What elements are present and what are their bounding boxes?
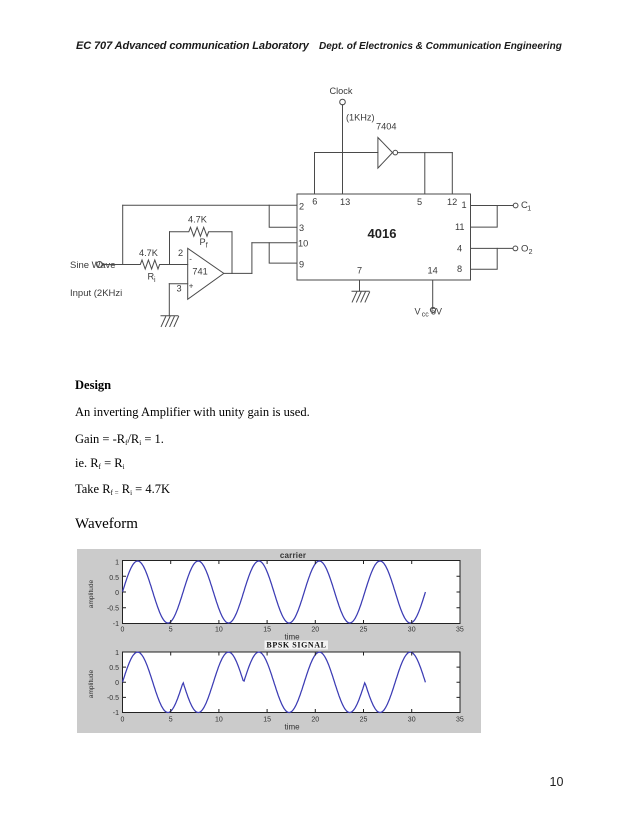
svg-text:1: 1 <box>115 560 119 567</box>
plot 2 curve: PATH2 <box>123 652 426 712</box>
svg-text:carrier: carrier <box>280 551 306 560</box>
svg-text:0: 0 <box>121 627 125 634</box>
header left <box>76 40 309 52</box>
plot 1 frame <box>123 561 461 624</box>
svg-text:-1: -1 <box>113 710 119 717</box>
svg-text:amplitude: amplitude <box>88 670 95 699</box>
wire pin 4 to O2 <box>471 247 514 249</box>
svg-text:0: 0 <box>115 590 119 597</box>
svg-text:time: time <box>284 723 300 732</box>
wire pin 2 <box>123 204 297 206</box>
plot 2 axis ticks <box>123 652 461 713</box>
resistor Pf 4.7K <box>170 227 233 236</box>
label Pf <box>200 237 208 250</box>
svg-text:35: 35 <box>456 717 464 724</box>
label Vcc 5V <box>415 307 443 319</box>
ground IC <box>352 291 370 302</box>
wire pin 8 step <box>471 248 498 269</box>
svg-text:35: 35 <box>456 627 464 634</box>
plot 2 y ticks <box>107 650 119 717</box>
wire to pin 12 <box>451 153 453 194</box>
wire clock to pin 13 <box>342 105 344 194</box>
wire pin 9 step <box>269 243 297 263</box>
wire pin 3 step <box>269 205 297 227</box>
svg-text:5: 5 <box>169 627 173 634</box>
wire input riser <box>122 205 124 264</box>
svg-text:10: 10 <box>215 627 223 634</box>
svg-text:30: 30 <box>408 717 416 724</box>
wire inverter output <box>398 152 453 154</box>
wire op-amp output <box>224 272 252 274</box>
terminal input <box>97 262 103 268</box>
waveform panel <box>77 549 481 733</box>
plot 2 title BPSK SIGNAL <box>265 641 329 650</box>
op-amp U3 741 <box>188 248 224 299</box>
svg-text:0.5: 0.5 <box>109 575 119 582</box>
wire feedback right drop <box>231 232 233 274</box>
ground op-amp <box>161 316 179 327</box>
wire inverter input <box>315 152 378 154</box>
page number <box>550 775 564 789</box>
label C1 <box>521 200 531 213</box>
clock terminal <box>340 99 346 105</box>
wire pin 11 step <box>471 206 498 228</box>
plot 2 frame <box>123 652 461 713</box>
svg-text:-0.5: -0.5 <box>107 606 119 613</box>
plot 2 x ticks <box>121 717 464 724</box>
plot 1 curve: PATH1 <box>123 561 426 623</box>
svg-text:15: 15 <box>263 717 271 724</box>
svg-text:0: 0 <box>121 717 125 724</box>
svg-text:25: 25 <box>360 717 368 724</box>
wire pin 1 to C1 <box>471 205 514 207</box>
svg-text:0: 0 <box>115 680 119 687</box>
terminal O2 <box>513 246 518 251</box>
wire to pin 6 <box>314 153 316 195</box>
plot 1 axis ticks <box>123 561 461 624</box>
wire to pin 5 <box>424 153 426 194</box>
svg-text:20: 20 <box>311 627 319 634</box>
svg-text:20: 20 <box>311 717 319 724</box>
terminal Vcc <box>430 307 435 312</box>
inverter U2 7404 <box>378 138 393 169</box>
wire plus input <box>169 283 187 285</box>
svg-text:25: 25 <box>360 627 368 634</box>
svg-text:0.5: 0.5 <box>109 665 119 672</box>
header right <box>319 41 562 52</box>
svg-text:1: 1 <box>115 650 119 657</box>
wire output riser <box>251 243 253 274</box>
svg-text:BPSK SIGNAL: BPSK SIGNAL <box>266 641 326 650</box>
svg-text:5: 5 <box>169 717 173 724</box>
inverter output bubble <box>393 150 398 155</box>
plot 1 y ticks <box>107 560 119 629</box>
label O2 <box>521 244 533 257</box>
svg-text:amplitude: amplitude <box>88 580 95 609</box>
svg-text:-0.5: -0.5 <box>107 695 119 702</box>
IC U1 4016 <box>297 194 471 280</box>
svg-text:-1: -1 <box>113 621 119 628</box>
terminal C1 <box>513 203 518 208</box>
svg-text:15: 15 <box>263 627 271 634</box>
resistor Ri 4.7K with input wire <box>103 260 188 269</box>
wire pin 10 <box>252 242 297 244</box>
plot 1 x ticks <box>121 627 464 634</box>
label Ri <box>148 272 157 285</box>
wire pin 7 stub <box>359 280 361 291</box>
wire feedback left drop <box>169 232 171 265</box>
svg-text:10: 10 <box>215 717 223 724</box>
svg-text:30: 30 <box>408 627 416 634</box>
wire plus to ground <box>168 284 170 316</box>
body text <box>75 378 111 393</box>
wire pin 14 stub <box>432 280 434 307</box>
